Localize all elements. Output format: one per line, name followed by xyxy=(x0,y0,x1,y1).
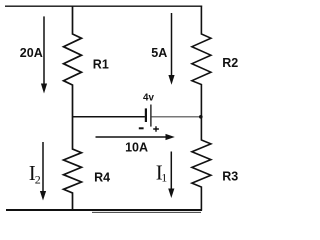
svg-text:R2: R2 xyxy=(222,56,238,70)
svg-text:10A: 10A xyxy=(125,141,148,155)
svg-text:R4: R4 xyxy=(94,170,110,184)
svg-text:20A: 20A xyxy=(20,46,43,60)
svg-text:R3: R3 xyxy=(222,169,238,183)
svg-text:2: 2 xyxy=(35,172,41,186)
svg-text:5A: 5A xyxy=(151,46,167,60)
svg-text:1: 1 xyxy=(161,170,167,184)
svg-text:R1: R1 xyxy=(93,57,109,71)
svg-text:4v: 4v xyxy=(143,92,154,103)
